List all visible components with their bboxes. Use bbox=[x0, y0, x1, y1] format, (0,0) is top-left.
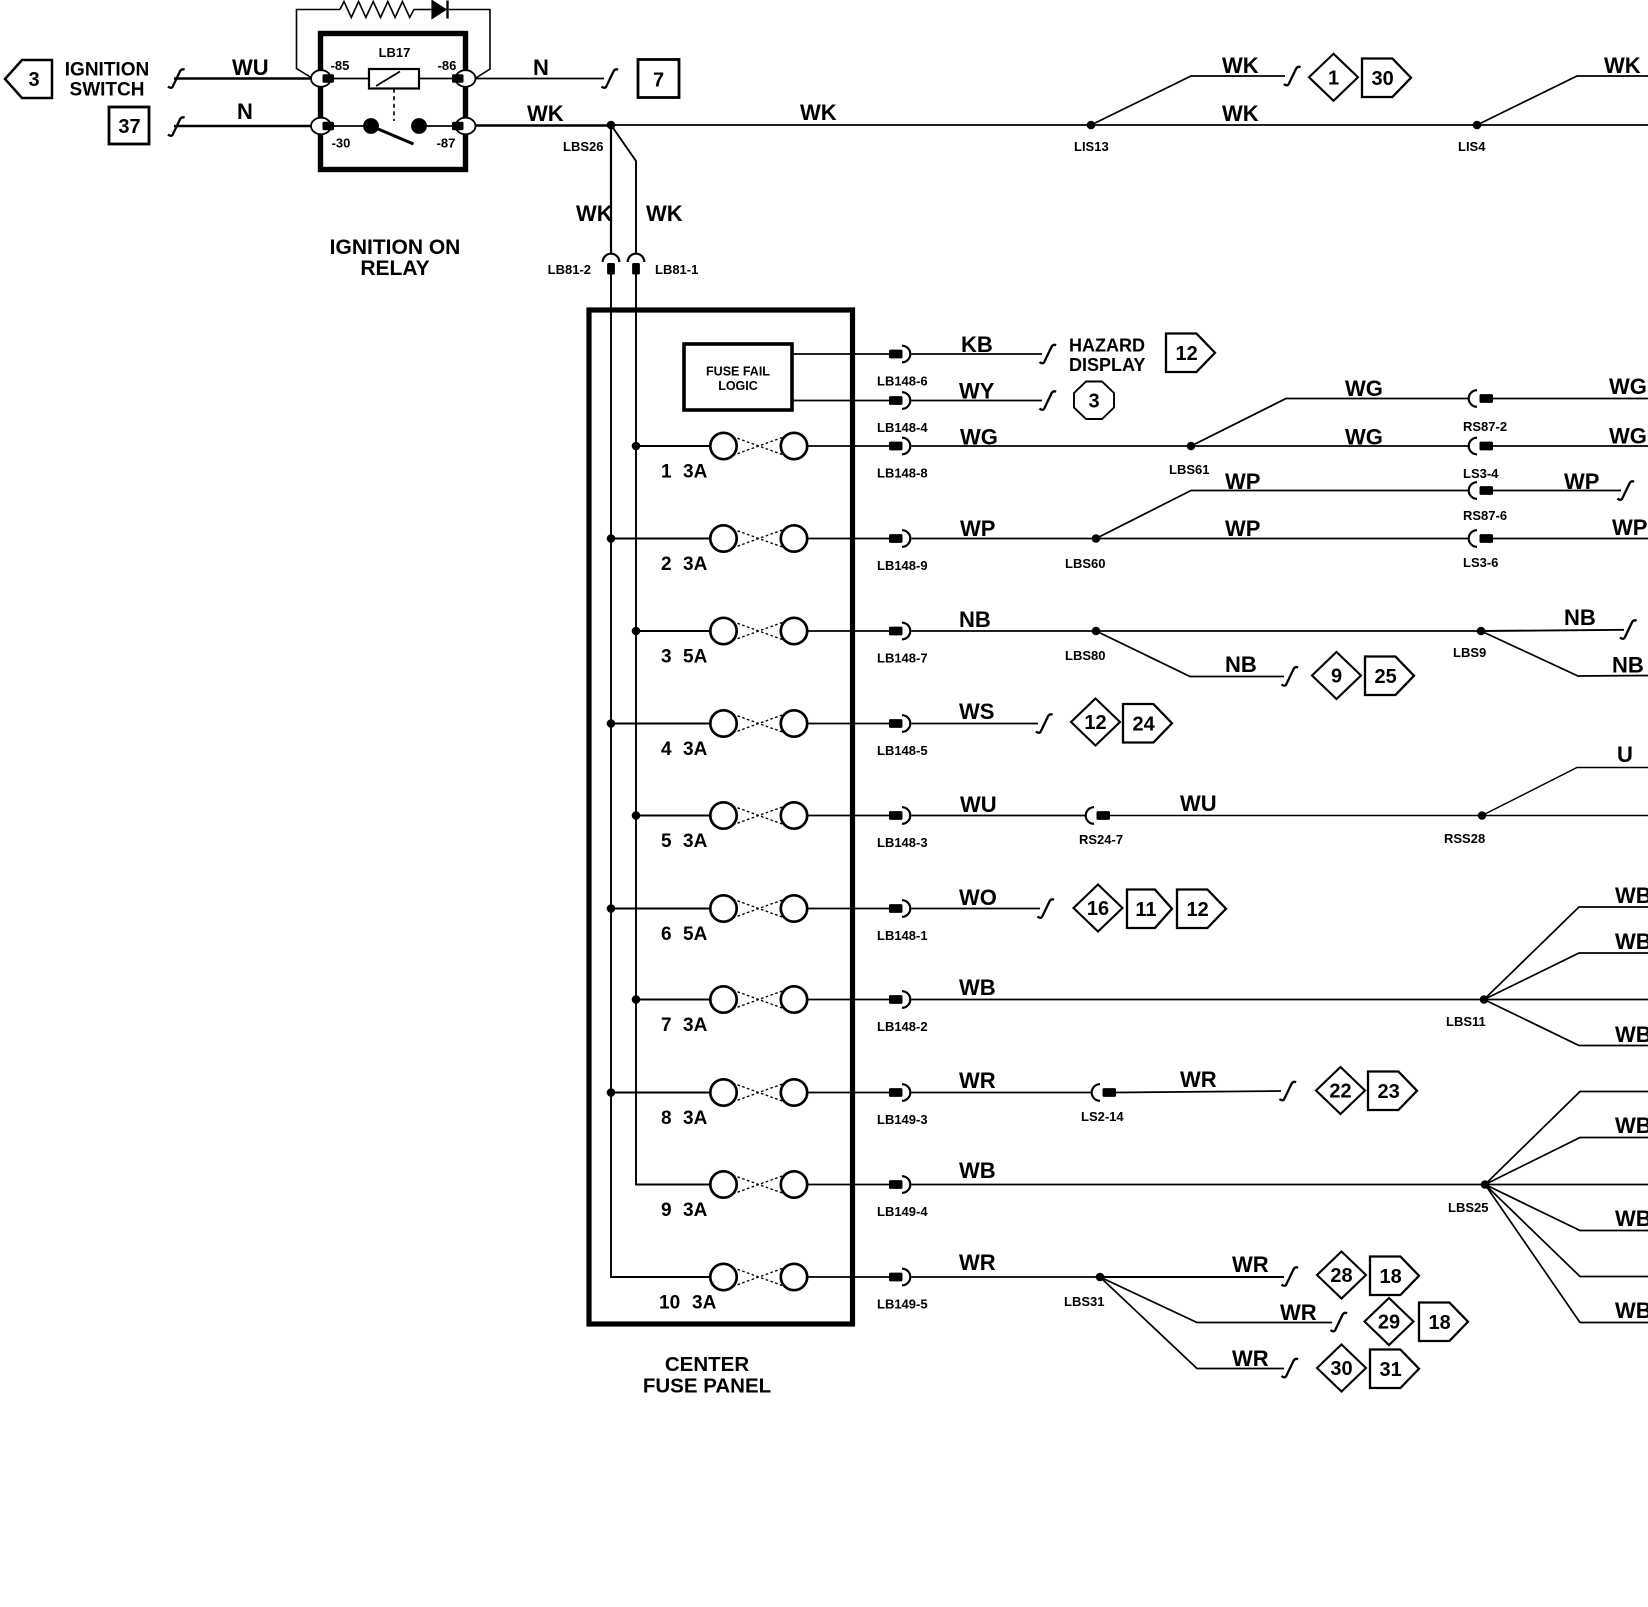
svg-text:NB: NB bbox=[1564, 605, 1596, 630]
svg-text:LB17: LB17 bbox=[379, 45, 411, 60]
svg-text:WK: WK bbox=[1222, 53, 1259, 78]
wire WU fuse 5 to connector RS24-7 bbox=[912, 815, 1087, 817]
wire WU connector to splice RSS28 bbox=[1110, 815, 1482, 817]
svg-text:12: 12 bbox=[1175, 343, 1197, 365]
wire WK main run LBS26 to right edge bbox=[611, 124, 1648, 126]
ref 11 pentagon bbox=[1127, 890, 1172, 929]
svg-text:18: 18 bbox=[1428, 1312, 1450, 1334]
svg-text:LIS13: LIS13 bbox=[1074, 139, 1109, 154]
svg-text:WG: WG bbox=[1609, 374, 1647, 399]
svg-text:25: 25 bbox=[1374, 666, 1396, 688]
svg-text:3A: 3A bbox=[683, 1200, 708, 1221]
page-break slash on wire WR bbox=[1280, 1082, 1297, 1101]
wire WB branch 4 LBS25 to right edge bbox=[1485, 1185, 1648, 1231]
svg-text:IGNITION: IGNITION bbox=[65, 60, 149, 81]
svg-text:WG: WG bbox=[1345, 376, 1383, 401]
svg-text:LB149-4: LB149-4 bbox=[877, 1204, 928, 1219]
svg-text:1: 1 bbox=[661, 462, 672, 483]
wire NB main LBS9 to page-break slash bbox=[1481, 630, 1624, 631]
connector RS87-6 bbox=[1469, 482, 1477, 499]
svg-text:WB: WB bbox=[959, 975, 996, 1000]
fuse 1 (3A) bbox=[632, 433, 889, 483]
svg-text:12: 12 bbox=[1186, 899, 1208, 921]
ref 12 pentagon (hazard display) bbox=[1166, 334, 1215, 373]
svg-text:WR: WR bbox=[959, 1250, 996, 1275]
svg-text:LB148-9: LB148-9 bbox=[877, 558, 928, 573]
svg-text:WU: WU bbox=[960, 792, 997, 817]
svg-text:LB148-4: LB148-4 bbox=[877, 420, 928, 435]
ref 30 diamond bbox=[1317, 1345, 1366, 1392]
svg-text:WG: WG bbox=[1345, 425, 1383, 450]
page-break slash on wire WY bbox=[1040, 391, 1057, 410]
wire WR branch b LBS31 to ref 29/18 bbox=[1100, 1277, 1332, 1323]
diode (coil suppression), cathode bar right bbox=[432, 1, 446, 19]
svg-text:KB: KB bbox=[961, 332, 993, 357]
splice RSS28 bbox=[1478, 811, 1487, 820]
page-break slash on WR branch b bbox=[1331, 1313, 1348, 1332]
ref 18 pentagon (second) bbox=[1419, 1303, 1468, 1342]
splice LBS80 bbox=[1092, 627, 1101, 636]
connector LS3-4 bbox=[1469, 438, 1477, 455]
page-break slash on wire WS bbox=[1036, 714, 1053, 733]
wire diode to right riser of suppression loop bbox=[449, 10, 490, 79]
svg-text:3A: 3A bbox=[683, 1015, 708, 1036]
svg-text:LB81-2: LB81-2 bbox=[548, 262, 591, 277]
svg-text:WP: WP bbox=[1225, 469, 1260, 494]
wire WK branch at LIS4 to right edge bbox=[1477, 76, 1648, 125]
svg-text:30: 30 bbox=[1330, 1358, 1352, 1380]
page-break slash on wire KB bbox=[1040, 345, 1057, 364]
ref 3 octagon bbox=[1074, 382, 1114, 420]
svg-text:6: 6 bbox=[661, 924, 672, 945]
svg-text:WB: WB bbox=[1615, 1298, 1648, 1323]
svg-text:RS24-7: RS24-7 bbox=[1079, 832, 1123, 847]
splice LIS13 bbox=[1087, 121, 1096, 130]
svg-text:LBS25: LBS25 bbox=[1448, 1200, 1488, 1215]
wire WB branch 5 LBS25 to right edge bbox=[1485, 1185, 1648, 1277]
ref 30 pentagon bbox=[1362, 59, 1411, 98]
svg-text:CENTER: CENTER bbox=[665, 1353, 749, 1376]
svg-text:WK: WK bbox=[527, 101, 564, 126]
connector RS24-7 bbox=[1086, 807, 1094, 824]
page-break slash on NB branch bbox=[1282, 667, 1299, 686]
svg-text:NB: NB bbox=[959, 607, 991, 632]
svg-text:16: 16 bbox=[1087, 898, 1109, 920]
svg-text:24: 24 bbox=[1132, 713, 1155, 735]
svg-text:WK: WK bbox=[1222, 101, 1259, 126]
splice LBS25 bbox=[1481, 1180, 1490, 1189]
svg-text:WP: WP bbox=[1612, 515, 1647, 540]
fuse 10 (3A) bbox=[659, 1264, 889, 1314]
center fuse panel outline bbox=[589, 310, 853, 1324]
splice LBS61 bbox=[1187, 442, 1196, 451]
wire WG fuse 1 to splice LBS61 bbox=[912, 445, 1192, 447]
svg-text:WG: WG bbox=[960, 425, 998, 450]
svg-text:LBS9: LBS9 bbox=[1453, 645, 1486, 660]
svg-text:WK: WK bbox=[576, 201, 613, 226]
connector LB148-1 bbox=[877, 900, 928, 943]
node 37 reference box bbox=[109, 107, 149, 144]
wire WB straight LBS25 to right edge bbox=[1485, 1184, 1648, 1186]
wire WR branch a LBS31 to ref 28/18 bbox=[1100, 1276, 1284, 1278]
svg-text:LB148-6: LB148-6 bbox=[877, 374, 928, 389]
connector LB81-2 bbox=[603, 254, 620, 262]
wire WK drop to connector LB81-1 bbox=[611, 125, 636, 254]
ref 16 diamond bbox=[1074, 885, 1123, 932]
svg-text:-85: -85 bbox=[331, 58, 350, 73]
wire WP branch LBS60 up to connector RS87-6 bbox=[1096, 491, 1469, 539]
fuse 9 (3A) bbox=[661, 1171, 889, 1221]
connector LB148-8 bbox=[877, 438, 928, 481]
connector LB81-1 bbox=[628, 254, 645, 262]
bus wire from LB81-1 down right bus to fuse 9 bbox=[636, 274, 710, 1185]
wire WS fuse 4 to ref 12/24 bbox=[912, 723, 1039, 725]
svg-text:18: 18 bbox=[1379, 1266, 1401, 1288]
svg-text:12: 12 bbox=[1084, 712, 1106, 734]
node 3 ignition switch reference (left-pointing pentagon) bbox=[5, 60, 52, 98]
page-break slash on wire N bbox=[168, 117, 185, 136]
svg-text:LBS31: LBS31 bbox=[1064, 1294, 1104, 1309]
connector LB148-5 bbox=[877, 715, 928, 758]
connector LB148-4 bbox=[889, 396, 903, 405]
svg-text:-86: -86 bbox=[438, 58, 457, 73]
connector LS2-14 bbox=[1092, 1084, 1100, 1101]
ref 29 diamond bbox=[1365, 1298, 1414, 1345]
svg-text:3A: 3A bbox=[683, 739, 708, 760]
connector LB148-6 bbox=[889, 350, 903, 359]
svg-text:37: 37 bbox=[118, 116, 140, 138]
connector LB149-4 bbox=[877, 1176, 928, 1219]
wire WB branch 4 LBS11 to right edge bbox=[1484, 1000, 1648, 1046]
svg-text:LB148-7: LB148-7 bbox=[877, 651, 928, 666]
svg-text:WR: WR bbox=[959, 1068, 996, 1093]
svg-text:NB: NB bbox=[1612, 653, 1644, 678]
svg-text:LB148-1: LB148-1 bbox=[877, 928, 928, 943]
svg-text:WP: WP bbox=[1564, 469, 1599, 494]
wire WP main LBS60 to connector LS3-6 bbox=[1096, 538, 1469, 540]
splice LBS60 bbox=[1092, 534, 1101, 543]
svg-text:LB148-2: LB148-2 bbox=[877, 1019, 928, 1034]
page-break slash on wire N (right) bbox=[602, 69, 619, 88]
svg-text:5: 5 bbox=[661, 831, 672, 852]
wire WR fuse 10 to splice LBS31 bbox=[912, 1276, 1101, 1278]
svg-text:-87: -87 bbox=[437, 136, 456, 151]
svg-text:22: 22 bbox=[1329, 1081, 1351, 1103]
svg-text:WR: WR bbox=[1280, 1300, 1317, 1325]
svg-text:RS87-6: RS87-6 bbox=[1463, 508, 1507, 523]
svg-text:WR: WR bbox=[1180, 1067, 1217, 1092]
svg-text:N: N bbox=[533, 55, 549, 80]
wire WR branch c LBS31 to ref 30/31 bbox=[1100, 1277, 1284, 1369]
wire NB branch LBS9 down to right edge bbox=[1481, 631, 1648, 676]
svg-text:31: 31 bbox=[1379, 1359, 1401, 1381]
svg-text:5A: 5A bbox=[683, 924, 708, 945]
svg-text:3A: 3A bbox=[683, 554, 708, 575]
ref 1 diamond bbox=[1309, 54, 1358, 101]
relay coil element bbox=[334, 78, 369, 80]
relay pin -85 bbox=[311, 70, 331, 87]
wire WU from ignition switch to relay pin -85 bbox=[174, 77, 316, 80]
ref 23 pentagon bbox=[1368, 1072, 1417, 1111]
page-break slash on WR branch c bbox=[1282, 1359, 1299, 1378]
relay pin -86 bbox=[456, 70, 476, 87]
wire U branch RSS28 up to right edge bbox=[1482, 768, 1648, 816]
splice LBS11 bbox=[1480, 995, 1489, 1004]
page-break slash on NB main bbox=[1620, 620, 1637, 639]
svg-text:9: 9 bbox=[661, 1200, 672, 1221]
wire WP fuse 2 to splice LBS60 bbox=[912, 538, 1097, 540]
ref 12 diamond bbox=[1071, 699, 1120, 746]
svg-text:WP: WP bbox=[960, 516, 995, 541]
svg-text:LBS60: LBS60 bbox=[1065, 556, 1105, 571]
svg-text:3A: 3A bbox=[683, 462, 708, 483]
svg-text:LS3-4: LS3-4 bbox=[1463, 466, 1499, 481]
wire WB branch 1 LBS11 to right edge bbox=[1484, 907, 1648, 1000]
fuse 4 (3A) bbox=[607, 710, 889, 760]
ref 25 pentagon bbox=[1365, 657, 1414, 696]
svg-text:3: 3 bbox=[661, 647, 672, 668]
svg-text:7: 7 bbox=[661, 1015, 672, 1036]
svg-text:FUSE FAIL: FUSE FAIL bbox=[706, 365, 770, 379]
svg-text:HAZARD: HAZARD bbox=[1069, 336, 1145, 356]
svg-text:3: 3 bbox=[1088, 391, 1099, 413]
ref 22 diamond bbox=[1316, 1067, 1365, 1114]
svg-text:3A: 3A bbox=[692, 1293, 717, 1314]
svg-text:RELAY: RELAY bbox=[360, 257, 429, 280]
svg-text:5A: 5A bbox=[683, 647, 708, 668]
relay switch contacts and armature blade bbox=[334, 125, 366, 127]
svg-text:WB: WB bbox=[959, 1158, 996, 1183]
svg-text:28: 28 bbox=[1330, 1265, 1352, 1287]
page-break slash on wire WP bbox=[1618, 481, 1635, 500]
wire WO fuse 6 to ref 16/11/12 bbox=[912, 908, 1041, 910]
wire WY from fuse fail logic to connector LB148-4 bbox=[792, 400, 889, 402]
fuse fail logic module box bbox=[684, 344, 792, 410]
wire WB branch 2 LBS11 to right edge bbox=[1484, 953, 1648, 1000]
wire WP to right edge (main) bbox=[1493, 538, 1648, 540]
page-break slash on WK branch bbox=[1284, 67, 1301, 86]
resistor (coil suppression) zigzag bbox=[340, 2, 420, 18]
svg-text:LOGIC: LOGIC bbox=[718, 379, 758, 393]
svg-text:LS3-6: LS3-6 bbox=[1463, 555, 1498, 570]
wire WG to right edge (main) bbox=[1493, 445, 1648, 447]
wire WK drop LBS26 to connector LB81-2 bbox=[610, 125, 612, 254]
wire NB fuse 3 to splice LBS80 bbox=[912, 630, 1097, 632]
wire NB main LBS80 to splice LBS9 bbox=[1096, 630, 1481, 632]
svg-text:DISPLAY: DISPLAY bbox=[1069, 355, 1145, 375]
svg-text:LBS26: LBS26 bbox=[563, 139, 603, 154]
wire WB branch 6 LBS25 to right edge bbox=[1485, 1185, 1648, 1323]
svg-text:3A: 3A bbox=[683, 831, 708, 852]
svg-text:WG: WG bbox=[1609, 424, 1647, 449]
wire N from relay pin -86 to node 7 bbox=[475, 78, 604, 80]
connector LB148-9 bbox=[877, 530, 928, 573]
wire WR connector to ref 22/23 bbox=[1116, 1091, 1281, 1093]
node 7 reference box bbox=[638, 60, 679, 98]
wire WG to right edge (upper) bbox=[1493, 398, 1648, 400]
svg-text:WB: WB bbox=[1615, 929, 1648, 954]
relay pin -87 bbox=[456, 118, 476, 135]
wire WB fuse 7 to splice LBS11 bbox=[912, 999, 1485, 1001]
svg-text:-30: -30 bbox=[332, 136, 351, 151]
svg-text:NB: NB bbox=[1225, 652, 1257, 677]
ref 12 pentagon (row 6) bbox=[1177, 890, 1226, 929]
svg-text:7: 7 bbox=[653, 70, 664, 92]
svg-text:WB: WB bbox=[1615, 1113, 1648, 1138]
wire WB fuse 9 to splice LBS25 bbox=[912, 1184, 1486, 1186]
wire WY out of connector bbox=[912, 400, 1043, 402]
connector LB148-7 bbox=[877, 623, 928, 666]
svg-text:WB: WB bbox=[1615, 1206, 1648, 1231]
svg-text:3: 3 bbox=[28, 69, 39, 91]
svg-text:WB: WB bbox=[1615, 1022, 1648, 1047]
fuse 2 (3A) bbox=[607, 525, 889, 575]
svg-text:IGNITION ON: IGNITION ON bbox=[330, 236, 461, 259]
ref 31 pentagon bbox=[1370, 1350, 1419, 1389]
relay U1 IGNITION ON RELAY outline LB17 bbox=[321, 34, 466, 170]
page-break slash on WR branch a bbox=[1282, 1267, 1299, 1286]
svg-text:9: 9 bbox=[1331, 666, 1342, 688]
splice LBS26 bbox=[607, 121, 616, 130]
fuse 5 (3A) bbox=[632, 802, 889, 852]
ref 9 diamond bbox=[1312, 652, 1361, 699]
wire WB straight LBS11 to right edge bbox=[1484, 999, 1648, 1001]
wire WU main RSS28 to right edge bbox=[1482, 815, 1648, 817]
svg-text:WR: WR bbox=[1232, 1252, 1269, 1277]
connector LB148-3 bbox=[877, 807, 928, 850]
wire resistor to diode bbox=[420, 9, 432, 11]
fuse 6 (5A) bbox=[607, 895, 889, 945]
ref 28 diamond bbox=[1317, 1252, 1366, 1299]
svg-text:RS87-2: RS87-2 bbox=[1463, 419, 1507, 434]
wire WG branch LBS61 up to connector RS87-2 bbox=[1191, 399, 1469, 447]
wire KB from fuse fail logic to connector LB148-6 bbox=[792, 353, 889, 355]
svg-text:LIS4: LIS4 bbox=[1458, 139, 1486, 154]
svg-text:3A: 3A bbox=[683, 1108, 708, 1129]
svg-text:WR: WR bbox=[1232, 1346, 1269, 1371]
connector LB149-5 bbox=[877, 1269, 928, 1312]
svg-text:WY: WY bbox=[959, 379, 995, 404]
svg-text:WU: WU bbox=[232, 55, 269, 80]
svg-text:LB148-8: LB148-8 bbox=[877, 466, 928, 481]
wire WR fuse 8 to connector LS2-14 bbox=[912, 1092, 1093, 1094]
splice LBS9 bbox=[1477, 627, 1486, 636]
wire KB to hazard display bbox=[912, 353, 1043, 355]
wire WP upper to page-break slash bbox=[1493, 490, 1622, 492]
relay pin -30 bbox=[311, 118, 331, 135]
connector RS87-2 bbox=[1469, 390, 1477, 407]
wire WK branch at LIS13 to ref 1/30 bbox=[1091, 76, 1285, 125]
svg-text:LBS61: LBS61 bbox=[1169, 462, 1209, 477]
svg-text:N: N bbox=[237, 99, 253, 124]
wire WK from relay pin -87 to splice LBS26 bbox=[475, 124, 611, 127]
svg-text:LB149-3: LB149-3 bbox=[877, 1112, 928, 1127]
svg-text:WO: WO bbox=[959, 885, 997, 910]
svg-text:WU: WU bbox=[1180, 791, 1217, 816]
wire N from node 37 to relay pin -30 bbox=[174, 125, 316, 128]
svg-text:LB148-3: LB148-3 bbox=[877, 835, 928, 850]
svg-text:23: 23 bbox=[1377, 1081, 1399, 1103]
page-break slash on wire WO bbox=[1038, 899, 1055, 918]
svg-text:LBS80: LBS80 bbox=[1065, 648, 1105, 663]
bus wire from LB81-2 down left bus to fuse 10 bbox=[611, 274, 710, 1277]
svg-text:8: 8 bbox=[661, 1108, 672, 1129]
svg-text:RSS28: RSS28 bbox=[1444, 831, 1485, 846]
svg-text:U: U bbox=[1617, 742, 1633, 767]
svg-text:WS: WS bbox=[959, 699, 994, 724]
wire WG main LBS61 to connector LS3-4 bbox=[1191, 445, 1469, 447]
page-break slash on wire WU bbox=[168, 69, 185, 88]
svg-text:LB81-1: LB81-1 bbox=[655, 262, 698, 277]
connector LS3-6 bbox=[1469, 530, 1477, 547]
svg-text:FUSE PANEL: FUSE PANEL bbox=[643, 1375, 771, 1398]
svg-text:30: 30 bbox=[1371, 68, 1393, 90]
svg-text:29: 29 bbox=[1378, 1312, 1400, 1334]
splice LBS31 bbox=[1096, 1273, 1105, 1282]
svg-text:WK: WK bbox=[646, 201, 683, 226]
svg-text:SWITCH: SWITCH bbox=[70, 80, 145, 101]
svg-text:WK: WK bbox=[1604, 53, 1641, 78]
wire NB branch LBS80 down to ref 9/25 bbox=[1096, 631, 1284, 677]
splice LIS4 bbox=[1473, 121, 1482, 130]
wire WB branch 1 LBS25 to right edge bbox=[1485, 1092, 1648, 1185]
svg-text:10: 10 bbox=[659, 1293, 680, 1314]
ref 24 pentagon bbox=[1123, 704, 1172, 743]
svg-text:LBS11: LBS11 bbox=[1446, 1014, 1486, 1029]
svg-text:WK: WK bbox=[800, 100, 837, 125]
svg-text:2: 2 bbox=[661, 554, 672, 575]
svg-text:LB149-5: LB149-5 bbox=[877, 1297, 928, 1312]
svg-text:WP: WP bbox=[1225, 516, 1260, 541]
wire WB branch 2 LBS25 to right edge bbox=[1485, 1138, 1648, 1185]
fuse 8 (3A) bbox=[607, 1079, 889, 1129]
svg-text:11: 11 bbox=[1135, 899, 1156, 921]
relay coil-to-armature dashed link bbox=[393, 89, 395, 122]
svg-text:LS2-14: LS2-14 bbox=[1081, 1109, 1124, 1124]
svg-text:1: 1 bbox=[1328, 68, 1339, 90]
relay coil suppression loop wire (left riser) bbox=[297, 10, 341, 79]
svg-text:LB148-5: LB148-5 bbox=[877, 743, 928, 758]
svg-text:WB: WB bbox=[1615, 883, 1648, 908]
fuse 7 (3A) bbox=[632, 986, 889, 1036]
fuse 3 (5A) bbox=[632, 618, 889, 668]
svg-text:4: 4 bbox=[661, 739, 672, 760]
connector LB149-3 bbox=[877, 1084, 928, 1127]
ref 18 pentagon bbox=[1370, 1257, 1419, 1296]
connector LB148-2 bbox=[877, 991, 928, 1034]
